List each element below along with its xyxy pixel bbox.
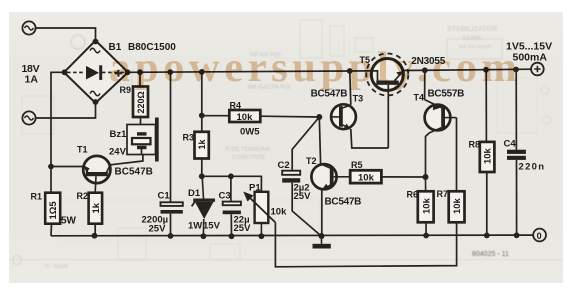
wire R3 to R4 — [202, 115, 230, 117]
svg-text:220Ω: 220Ω — [136, 91, 146, 113]
svg-text:R6: R6 — [407, 190, 419, 200]
svg-text:10k: 10k — [483, 147, 494, 164]
svg-text:R2: R2 — [77, 191, 89, 201]
svg-text:25V: 25V — [294, 191, 312, 202]
transistor T4 — [424, 100, 456, 133]
svg-text:C1: C1 — [158, 191, 171, 202]
node ground junction — [319, 233, 325, 239]
svg-text:24V: 24V — [109, 147, 127, 158]
svg-text:25V: 25V — [234, 223, 252, 234]
node rail D1 — [201, 233, 207, 239]
svg-text:10k: 10k — [421, 197, 432, 214]
svg-text:T4: T4 — [414, 92, 425, 102]
wire P1 wiper to R7 bottom loop — [275, 221, 456, 267]
capacitor C3 — [223, 176, 241, 236]
wire T3 collector to rail — [350, 71, 351, 105]
node bridge right — [125, 69, 131, 75]
resistor R5 — [337, 170, 426, 183]
resistor R8 — [480, 70, 495, 236]
node bridge bottom — [93, 99, 99, 105]
svg-text:T1: T1 — [77, 145, 88, 155]
node T3 base C2 T2 collector — [316, 114, 322, 120]
node rail R2 — [92, 233, 98, 239]
wire positive rail left — [128, 71, 372, 72]
node rail C4 — [513, 67, 519, 73]
ground — [313, 236, 331, 249]
svg-text:T3: T3 — [353, 94, 364, 104]
ghost print-through artifacts (decorative) — [71, 35, 85, 49]
svg-text:D1: D1 — [188, 188, 201, 199]
wire T2 emitter down — [321, 189, 323, 236]
wire ground rail — [51, 234, 533, 237]
svg-text:1W: 1W — [188, 221, 202, 232]
svg-text:10k: 10k — [237, 112, 254, 123]
node rail R9 — [137, 69, 143, 75]
transistor T1 — [83, 156, 110, 193]
transistor T2 — [311, 164, 336, 190]
svg-text:T2: T2 — [306, 156, 317, 166]
node C3 top — [228, 173, 234, 179]
output terminal zero — [533, 229, 546, 242]
wire zener rail — [202, 176, 262, 192]
svg-text:0W5: 0W5 — [240, 127, 260, 138]
resistor R4 — [229, 110, 260, 122]
node rail P1 — [259, 233, 265, 239]
wire T2 collector up — [319, 117, 320, 164]
svg-text:804025 - 11: 804025 - 11 — [472, 251, 509, 258]
capacitor C4 — [507, 70, 526, 236]
svg-text:STABILIZATOR: STABILIZATOR — [447, 26, 497, 33]
wire AC bottom to bridge bottom — [36, 103, 96, 118]
svg-text:R5: R5 — [351, 160, 363, 170]
output terminal plus — [531, 63, 544, 76]
svg-text:5W: 5W — [61, 216, 77, 227]
node rail R8 — [483, 67, 489, 73]
svg-text:1Ω5: 1Ω5 — [48, 201, 59, 220]
node rail C3 — [229, 233, 235, 239]
bridge rectifier B1 — [64, 41, 128, 104]
node bridge top — [93, 39, 99, 45]
resistor R2 — [89, 193, 103, 236]
potentiometer P1 — [243, 192, 275, 237]
svg-text:1A: 1A — [25, 73, 39, 85]
svg-text:BC547B: BC547B — [115, 167, 153, 178]
node rail C4 — [514, 232, 520, 238]
svg-text:P1: P1 — [249, 183, 261, 194]
buzzer Bz1 — [127, 118, 159, 162]
wire T3 emitter to T5 base — [351, 129, 389, 148]
node rail C1 — [168, 233, 174, 239]
svg-text:R7: R7 — [437, 189, 449, 199]
svg-text:R3: R3 — [183, 133, 195, 143]
capacitor C1 — [161, 72, 183, 236]
svg-text:apowersupply.com: apowersupply.com — [109, 44, 521, 91]
svg-text:10k: 10k — [452, 197, 463, 214]
svg-text:SERIE: SERIE — [462, 35, 482, 42]
transistor T5 case dashed — [366, 54, 408, 96]
AC input terminal top — [22, 21, 35, 34]
wire T1 emitter — [51, 166, 84, 168]
wire T4 collector down — [426, 133, 430, 177]
wire T4 base to R7 — [456, 118, 458, 193]
svg-text:10k: 10k — [271, 207, 288, 218]
node rail R6 — [423, 233, 429, 239]
svg-text:0: 0 — [537, 231, 542, 241]
node rail R3 — [199, 69, 205, 75]
resistor R9 — [133, 72, 148, 132]
capacitor C2 — [282, 117, 321, 236]
svg-text:1k: 1k — [91, 202, 102, 213]
node R3 R4 — [199, 113, 205, 119]
node D1 top — [199, 173, 205, 179]
resistor R6 — [418, 177, 434, 236]
node bridge left — [62, 69, 68, 75]
wire AC top to bridge top — [36, 28, 96, 41]
svg-text:15V: 15V — [203, 221, 221, 232]
node rail R8 — [484, 233, 490, 239]
AC input terminal bottom — [22, 111, 35, 124]
resistor R1 — [45, 193, 60, 236]
svg-text:1k: 1k — [197, 138, 207, 149]
svg-text:COMUTATE: COMUTATE — [232, 155, 265, 161]
svg-text:R8: R8 — [469, 140, 481, 150]
node rail T4 emitter — [422, 67, 428, 73]
resistor R7 — [449, 191, 465, 222]
wire bridge minus down left side — [51, 72, 64, 192]
zener diode D1 — [192, 176, 215, 236]
transistor T3 — [331, 104, 356, 129]
svg-text:IT - 61049: IT - 61049 — [45, 264, 68, 270]
resistor R3 — [195, 72, 209, 176]
svg-text:C3: C3 — [219, 191, 231, 202]
node T1 emitter junction — [48, 164, 54, 170]
svg-text:10k: 10k — [358, 173, 375, 184]
svg-text:Bz1: Bz1 — [110, 129, 128, 140]
node rail C1 — [167, 69, 173, 75]
svg-text:220n: 220n — [519, 162, 546, 173]
svg-text:BC547B: BC547B — [325, 196, 362, 207]
node R5 R6 T4 — [423, 174, 429, 180]
wire T4 emitter to rail — [424, 70, 426, 99]
svg-text:R DE TEMSUNE: R DE TEMSUNE — [225, 147, 270, 153]
wire output rail — [403, 69, 531, 70]
svg-text:25V: 25V — [149, 224, 167, 235]
svg-text:C2: C2 — [278, 160, 290, 171]
node rail T3 collector — [347, 68, 353, 74]
svg-text:R4: R4 — [230, 101, 242, 111]
svg-text:C4: C4 — [504, 139, 517, 150]
wire T1 collector to Bz1 — [110, 155, 143, 165]
transistor T5 — [371, 59, 403, 149]
wire R4 to T3 base node — [260, 115, 319, 118]
svg-text:R1: R1 — [31, 192, 43, 202]
